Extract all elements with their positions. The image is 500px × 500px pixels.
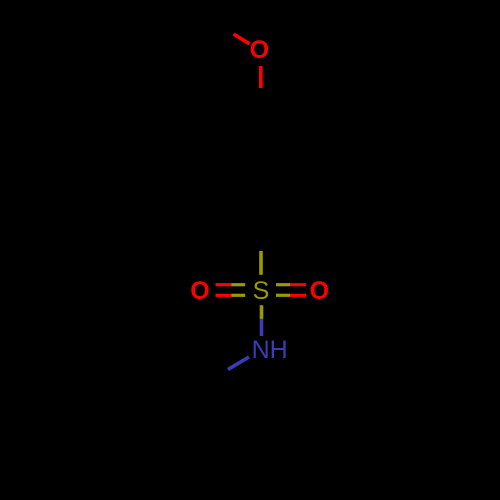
wire S=O left double bond bottom line red half	[216, 294, 232, 297]
wire S=O left double bond bottom line olive half	[231, 294, 245, 297]
svg-text:O: O	[190, 277, 209, 305]
wire O-C(ring) bond (red half)	[259, 66, 263, 88]
wire C(ring)-S bond (olive half)	[259, 251, 263, 275]
wire S=O right double bond top line olive half	[276, 283, 290, 286]
wire S=O right double bond bottom line red half	[290, 294, 306, 297]
svg-text:O: O	[310, 277, 329, 305]
wire S=O right double bond top line red half	[290, 283, 306, 286]
wire S=O left double bond top line olive half	[231, 283, 245, 286]
wire N-C bond blue half	[228, 357, 249, 369]
wire S=O left double bond top line red half	[216, 283, 232, 286]
wire S=O right double bond bottom line olive half	[276, 294, 290, 297]
svg-text:O: O	[250, 36, 269, 64]
svg-text:S: S	[253, 277, 270, 305]
wire S-N bond olive half	[260, 305, 264, 319]
wire CH3-O bond (red half)	[234, 34, 250, 44]
svg-text:NH: NH	[252, 336, 288, 364]
wire S-N bond blue half	[260, 319, 264, 336]
